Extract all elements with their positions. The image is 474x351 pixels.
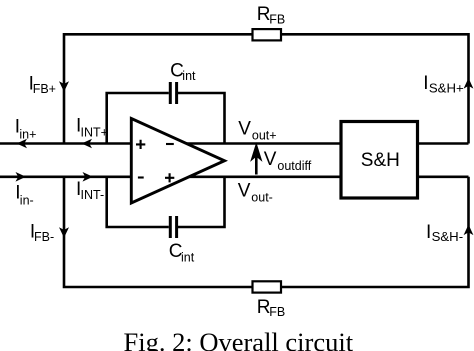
svg-text:in-: in- (20, 193, 34, 207)
arrow IS&H- (up) (464, 225, 474, 236)
arrow Voutdiff (up) (253, 147, 260, 175)
svg-text:INT-: INT- (81, 188, 105, 202)
op-amp + (top left) (136, 140, 145, 149)
svg-text:out-: out- (251, 191, 273, 205)
svg-text:FB-: FB- (34, 230, 54, 244)
arrow Iin+ (left) (17, 139, 27, 149)
S&H block U2 (341, 122, 418, 199)
svg-text:out+: out+ (252, 128, 277, 142)
op-amp U1 triangle (131, 119, 224, 204)
svg-text:INT+: INT+ (81, 125, 108, 139)
svg-text:V: V (238, 181, 251, 202)
wire: bottom Cint loop (107, 177, 225, 227)
wire: top feedback right segment (281, 34, 469, 143)
svg-text:int: int (181, 251, 195, 265)
op-amp - (bottom left) (138, 176, 144, 178)
op-amp - (top right) (166, 143, 174, 145)
label IFB- (30, 221, 54, 243)
svg-text:int: int (182, 69, 196, 83)
arrow IFB- (down) (59, 227, 69, 238)
wire: S&H right top (418, 142, 469, 145)
wire: input- line (0, 176, 133, 179)
arrow Iin- (right) (16, 172, 26, 182)
label Cint top (170, 60, 196, 83)
op-amp + (bottom right) (165, 173, 174, 182)
svg-text:Fig. 2: Overall circuit: Fig. 2: Overall circuit (124, 327, 354, 351)
label IINT- (76, 179, 104, 202)
svg-text:S&H: S&H (361, 150, 400, 171)
wire: top feedback left segment (64, 34, 253, 143)
wire: Vout+ line (187, 142, 342, 145)
label Vout- (238, 181, 273, 205)
arrow IFB+ (down) (59, 81, 69, 92)
resistor RFB bottom (253, 281, 282, 292)
wire: Vout- line (189, 176, 341, 179)
label Vout+ (238, 118, 276, 142)
svg-text:V: V (264, 149, 277, 170)
resistor RFB top (253, 29, 282, 40)
arrow IINT- (right) (83, 172, 93, 182)
label Iin+ (15, 117, 37, 142)
wire: top Cint loop (107, 93, 225, 144)
svg-text:I: I (426, 222, 431, 243)
svg-text:FB+: FB+ (33, 82, 56, 96)
arrow IINT+ (left) (82, 139, 92, 149)
capacitor Cint top plates (170, 82, 176, 104)
label IFB+ (29, 73, 56, 96)
svg-text:S&H-: S&H- (432, 229, 464, 244)
svg-text:S&H+: S&H+ (429, 81, 464, 96)
svg-text:V: V (238, 118, 251, 139)
label Cint bottom (169, 241, 195, 265)
wire: bottom feedback left segment (64, 177, 253, 287)
capacitor Cint bottom plates (170, 216, 176, 238)
svg-text:in+: in+ (19, 128, 36, 142)
svg-text:I: I (423, 73, 428, 94)
label RFB bottom (257, 297, 286, 319)
label RFB top (257, 4, 286, 26)
label Iin- (15, 182, 34, 207)
wire: S&H right bottom (418, 176, 469, 179)
svg-text:outdiff: outdiff (277, 159, 311, 173)
label IS&H+ (423, 73, 464, 96)
svg-text:FB: FB (269, 12, 285, 26)
label Voutdiff (264, 149, 312, 173)
wire: input+ line (0, 142, 133, 145)
label IINT+ (76, 116, 108, 140)
arrow IS&H+ (up) (464, 78, 474, 89)
label IS&H- (426, 222, 463, 244)
svg-text:FB: FB (269, 305, 285, 319)
wire: bottom feedback right segment (281, 177, 469, 287)
